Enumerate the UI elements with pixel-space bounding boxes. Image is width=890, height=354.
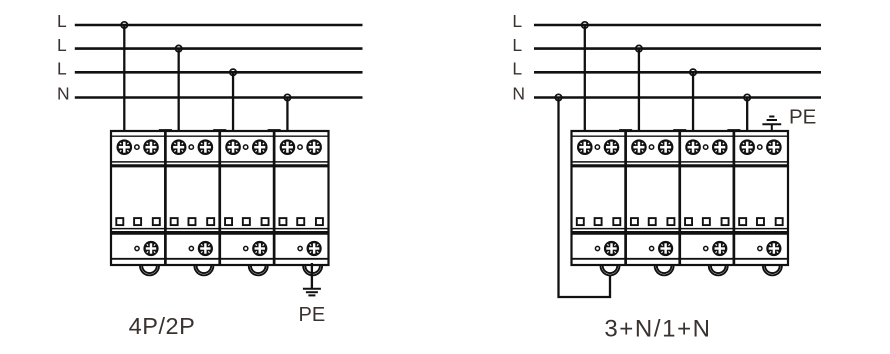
junction dot on L1 (left) xyxy=(121,22,127,28)
SPD device (left, 4P/2P): module 3 bottom terminal screw xyxy=(252,241,267,256)
svg-text:4P/2P: 4P/2P xyxy=(129,313,196,339)
drop wire from L1 to module 1 (right) xyxy=(584,25,586,147)
SPD device (left, 4P/2P): module 3 vent square 3 xyxy=(262,218,269,225)
SPD device (left, 4P/2P): raised tab at divider 1 xyxy=(159,129,172,132)
svg-text:L: L xyxy=(512,59,522,79)
SPD device (left, 4P/2P): module 4 vent square 2 xyxy=(297,218,304,225)
SPD device (right, 3+N/1+N): module divider 2 xyxy=(678,131,681,265)
SPD device (right, 3+N/1+N): module 4 top-left terminal screw xyxy=(739,139,755,155)
SPD device (right, 3+N/1+N): module 4 top indicator dot xyxy=(758,145,762,149)
SPD device (left, 4P/2P): module 1 vent square 2 xyxy=(134,218,141,225)
SPD device (right, 3+N/1+N): module 2 bottom indicator dot xyxy=(650,246,654,250)
SPD device (right, 3+N/1+N): module 4 vent square 1 xyxy=(739,218,746,225)
SPD device (right, 3+N/1+N): module 4 top-right terminal screw xyxy=(766,139,782,155)
SPD device (right, 3+N/1+N): module 3 bottom indicator dot xyxy=(704,246,708,250)
svg-text:PE: PE xyxy=(299,304,326,326)
junction dot on L2 (left) xyxy=(175,45,181,51)
bus wire L2 (left) xyxy=(75,47,363,50)
SPD device (right, 3+N/1+N): module 4 vent square 3 xyxy=(776,218,783,225)
bus wire N (right) xyxy=(534,96,821,99)
SPD device (left, 4P/2P): module 3 top-left terminal screw xyxy=(225,139,241,155)
SPD device (right, 3+N/1+N): module 2 top-left terminal screw xyxy=(631,139,647,155)
SPD device (right, 3+N/1+N): module 3 top indicator dot xyxy=(703,145,707,149)
bus wire L1 (left) xyxy=(75,24,363,27)
SPD device (left, 4P/2P): upper separator thin line xyxy=(111,161,329,163)
SPD device (right, 3+N/1+N): module 2 vent square 1 xyxy=(631,218,638,225)
SPD device (left, 4P/2P): module 2 bottom indicator dot xyxy=(189,246,193,250)
SPD device (left, 4P/2P): module 3 top indicator dot xyxy=(243,145,247,149)
SPD device (right, 3+N/1+N): module 2 vent square 2 xyxy=(649,218,656,225)
bus wire N (left) xyxy=(75,96,363,99)
SPD device (right, 3+N/1+N): module 4 bottom indicator dot xyxy=(758,246,762,250)
SPD device (right, 3+N/1+N): module 3 vent square 2 xyxy=(703,218,710,225)
svg-text:3+N/1+N: 3+N/1+N xyxy=(604,316,711,343)
svg-text:L: L xyxy=(57,11,67,31)
SPD device (left, 4P/2P): top cap line xyxy=(111,135,329,137)
SPD device (left, 4P/2P): upper separator thick line xyxy=(111,164,329,167)
SPD device (right, 3+N/1+N): module 3 bottom terminal screw xyxy=(712,241,727,256)
SPD device (right, 3+N/1+N): module 3 bottom clip hook xyxy=(709,266,728,276)
SPD device (left, 4P/2P): module divider 1 xyxy=(164,131,167,265)
SPD device (left, 4P/2P): module divider 2 xyxy=(218,131,221,265)
SPD device (left, 4P/2P): module 1 top-left terminal screw xyxy=(117,139,133,155)
svg-text:L: L xyxy=(512,11,522,31)
svg-text:PE: PE xyxy=(789,105,816,128)
drop wire from L2 to module 2 (right) xyxy=(638,49,640,148)
SPD device (right, 3+N/1+N): module 1 top indicator dot xyxy=(595,145,599,149)
SPD device (right, 3+N/1+N): bottom strip line xyxy=(572,258,789,260)
junction dot on N (left) xyxy=(284,94,290,100)
SPD device (right, 3+N/1+N): module 3 top-right terminal screw xyxy=(712,139,728,155)
SPD device (right, 3+N/1+N): raised tab at divider 1 xyxy=(619,129,632,132)
SPD device (left, 4P/2P): bottom strip line xyxy=(111,258,329,260)
SPD device (right, 3+N/1+N): raised tab at divider 3 xyxy=(727,129,740,132)
SPD device (left, 4P/2P): module 3 bottom indicator dot xyxy=(244,246,248,250)
SPD device (left, 4P/2P): module 4 top indicator dot xyxy=(298,145,302,149)
SPD device (left, 4P/2P): module 1 vent square 3 xyxy=(153,218,160,225)
SPD device (right, 3+N/1+N): module 3 top-left terminal screw xyxy=(685,139,701,155)
ground symbol PE (left) xyxy=(303,289,321,296)
SPD device (right, 3+N/1+N): module 1 vent square 1 xyxy=(577,218,584,225)
SPD device (right, 3+N/1+N): module 1 vent square 3 xyxy=(613,218,620,225)
SPD device (left, 4P/2P): module 3 vent square 1 xyxy=(225,218,232,225)
SPD device (right, 3+N/1+N): lower separator thick line xyxy=(572,231,789,235)
svg-text:L: L xyxy=(57,59,67,79)
SPD device (left, 4P/2P): module 2 top-right terminal screw xyxy=(198,139,214,155)
SPD device (left, 4P/2P): module 4 bottom indicator dot xyxy=(298,246,302,250)
junction dot on N (right) xyxy=(744,94,750,100)
SPD device (left, 4P/2P): module divider 3 xyxy=(273,131,276,265)
SPD device (left, 4P/2P): module 1 bottom terminal screw xyxy=(143,241,158,256)
SPD device (right, 3+N/1+N): module 4 vent square 2 xyxy=(757,218,764,225)
SPD device (right, 3+N/1+N): module 4 bottom terminal screw xyxy=(766,241,781,256)
SPD device (right, 3+N/1+N): module 2 top-right terminal screw xyxy=(658,139,674,155)
junction dot on L3 (left) xyxy=(230,69,236,75)
svg-text:N: N xyxy=(57,84,70,104)
SPD device (right, 3+N/1+N): top cap line xyxy=(572,135,789,137)
SPD device (left, 4P/2P): module 2 top indicator dot xyxy=(189,145,193,149)
SPD device (left, 4P/2P): module 1 bottom clip hook xyxy=(140,266,159,276)
SPD device (left, 4P/2P): module 1 bottom indicator dot xyxy=(135,246,139,250)
drop wire from L2 to module 2 (left) xyxy=(178,49,180,148)
SPD device (left, 4P/2P): module 1 top-right terminal screw xyxy=(143,139,159,155)
svg-text:N: N xyxy=(512,84,525,104)
N wrap-around wire to module 1 bottom (right) xyxy=(559,98,611,298)
SPD device (left, 4P/2P): module 4 top-right terminal screw xyxy=(306,139,322,155)
SPD device (right, 3+N/1+N): module divider 1 xyxy=(624,131,627,265)
SPD device (left, 4P/2P): module 2 vent square 2 xyxy=(188,218,195,225)
SPD device (left, 4P/2P): module 3 bottom clip hook xyxy=(249,266,268,276)
SPD device (left, 4P/2P): lower separator thin line xyxy=(111,228,329,230)
SPD device (right, 3+N/1+N): module 2 bottom terminal screw xyxy=(658,241,673,256)
drop wire from L3 to module 3 (right) xyxy=(692,72,694,147)
SPD device (right, 3+N/1+N): lower separator thin line xyxy=(572,228,789,230)
SPD device (left, 4P/2P): module 1 vent square 1 xyxy=(116,218,123,225)
bus wire L2 (right) xyxy=(534,47,821,50)
bus wire L1 (right) xyxy=(534,24,821,27)
SPD device (left, 4P/2P): raised tab at divider 3 xyxy=(268,129,281,132)
SPD device (left, 4P/2P): module 1 top indicator dot xyxy=(135,145,139,149)
SPD device (right, 3+N/1+N): module 1 top-right terminal screw xyxy=(604,139,620,155)
drop wire from N to module 4 (right) xyxy=(746,98,748,148)
SPD device (right, 3+N/1+N): module 2 vent square 3 xyxy=(667,218,674,225)
drop wire from L1 to module 1 (left) xyxy=(123,25,125,147)
wire from module 4 to ground (left) xyxy=(311,263,313,288)
SPD device (right, 3+N/1+N): module 1 bottom terminal screw xyxy=(604,241,619,256)
SPD device (right, 3+N/1+N): raised tab at divider 2 xyxy=(673,129,686,132)
SPD device (left, 4P/2P): outer case xyxy=(111,131,329,265)
drop wire from N to module 4 (left) xyxy=(286,98,288,148)
SPD device (right, 3+N/1+N): module divider 3 xyxy=(733,131,736,265)
svg-text:L: L xyxy=(57,35,67,55)
SPD device (right, 3+N/1+N): module 2 top indicator dot xyxy=(649,145,653,149)
SPD device (left, 4P/2P): module 3 vent square 2 xyxy=(243,218,250,225)
SPD device (left, 4P/2P): module 3 top-right terminal screw xyxy=(252,139,268,155)
SPD device (left, 4P/2P): module 2 bottom clip hook xyxy=(194,266,213,276)
bus wire L3 (left) xyxy=(75,71,363,74)
junction dot on L1 (right) xyxy=(582,22,588,28)
SPD device (right, 3+N/1+N): module 3 vent square 3 xyxy=(722,218,729,225)
SPD device (right, 3+N/1+N): module 1 bottom indicator dot xyxy=(595,246,599,250)
SPD device (left, 4P/2P): module 2 bottom terminal screw xyxy=(198,241,213,256)
SPD device (right, 3+N/1+N): upper separator thick line xyxy=(572,164,789,167)
inverted ground symbol PE (right) xyxy=(762,117,781,125)
drop wire from L3 to module 3 (left) xyxy=(232,72,234,147)
bus wire L3 (right) xyxy=(534,71,821,74)
SPD device (right, 3+N/1+N): module 2 bottom clip hook xyxy=(655,266,674,276)
junction dot on L3 (right) xyxy=(690,69,696,75)
SPD device (right, 3+N/1+N): module 1 bottom clip hook xyxy=(601,266,620,276)
SPD device (left, 4P/2P): module 4 top-left terminal screw xyxy=(280,139,296,155)
SPD device (left, 4P/2P): module 2 top-left terminal screw xyxy=(171,139,187,155)
SPD device (left, 4P/2P): module 4 vent square 3 xyxy=(316,218,323,225)
SPD device (right, 3+N/1+N): module 1 top-left terminal screw xyxy=(577,139,593,155)
SPD device (left, 4P/2P): raised tab at divider 2 xyxy=(213,129,226,132)
SPD device (left, 4P/2P): module 2 vent square 3 xyxy=(207,218,214,225)
SPD device (right, 3+N/1+N): upper separator thin line xyxy=(572,161,789,163)
SPD device (left, 4P/2P): module 4 bottom terminal screw xyxy=(307,241,322,256)
SPD device (left, 4P/2P): lower separator thick line xyxy=(111,231,329,235)
SPD device (right, 3+N/1+N): module 4 bottom clip hook xyxy=(763,266,782,276)
SPD device (left, 4P/2P): module 4 vent square 1 xyxy=(279,218,286,225)
SPD device (right, 3+N/1+N): module 3 vent square 1 xyxy=(685,218,692,225)
wire stub to top ground (right) xyxy=(771,124,773,130)
svg-text:L: L xyxy=(512,35,522,55)
SPD device (right, 3+N/1+N): outer case xyxy=(572,131,789,265)
junction dot on L2 (right) xyxy=(636,45,642,51)
SPD device (left, 4P/2P): module 4 bottom clip hook xyxy=(303,266,322,276)
junction dot on N for wrap wire (right) xyxy=(555,94,561,100)
SPD device (right, 3+N/1+N): module 1 vent square 2 xyxy=(595,218,602,225)
SPD device (left, 4P/2P): module 2 vent square 1 xyxy=(171,218,178,225)
